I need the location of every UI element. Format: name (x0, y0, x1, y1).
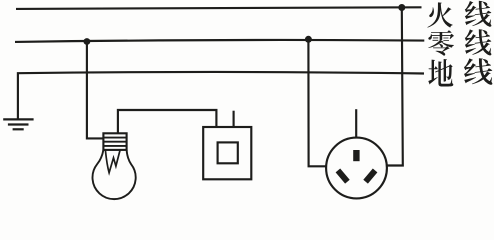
node A junction dot (neutral to socket) (305, 36, 312, 43)
wire switch right terminal stub (233, 111, 235, 127)
label 线 of 地线 (464, 58, 492, 85)
label 零 (neutral) (428, 30, 454, 55)
wire neutral drop to lamp base left (87, 42, 104, 139)
wire live bus (火线) (16, 7, 422, 9)
lamp L1 bulb envelope (93, 150, 136, 199)
switch S1 outer box (203, 127, 251, 179)
wire neutral drop to socket left (308, 39, 326, 166)
label 火 (live) (427, 2, 452, 27)
socket X1 body (326, 138, 387, 199)
wire neutral bus (零线) (15, 40, 424, 42)
ground symbol (3, 119, 33, 129)
socket X1 earth slot (353, 150, 359, 161)
label 线 of 火线 (465, 1, 492, 27)
label 线 of 零线 (465, 29, 492, 55)
wire lamp base top to switch (118, 110, 216, 133)
node B junction dot (live to socket) (398, 4, 405, 11)
socket X1 right slot (366, 170, 376, 181)
node C junction dot (neutral to lamp) (84, 38, 91, 45)
label 地 (earth) (428, 59, 453, 86)
socket X1 left slot (338, 170, 348, 181)
lamp L1 filament (105, 150, 120, 173)
lamp L1 screw base (103, 133, 126, 150)
wire earth bus (地线) with left drop to ground (18, 72, 424, 119)
switch S1 inner button (218, 142, 238, 163)
socket X1 earth stub (unconnected) (355, 109, 357, 138)
wire live drop to socket right (386, 8, 403, 166)
